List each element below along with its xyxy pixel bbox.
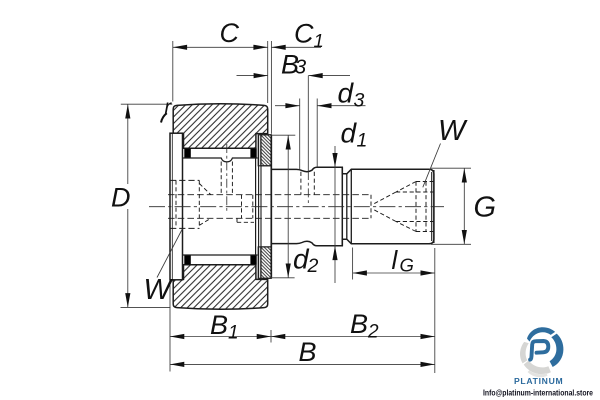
svg-text:W: W [144, 274, 174, 306]
dim lG: extension lines [353, 248, 435, 374]
dim C1: extension line [270, 41, 272, 134]
dim B1: line and arrows [170, 336, 271, 338]
dim d3: line and outside arrows [275, 105, 366, 107]
svg-text:d: d [338, 78, 355, 109]
dim d3: extension lines [300, 76, 318, 171]
svg-text:B: B [210, 310, 228, 340]
centerline: head radial hole [226, 144, 228, 212]
svg-text:1: 1 [228, 323, 239, 344]
stud flange top (hatched) [258, 135, 271, 166]
stud head raceway surface with lube notch [183, 158, 258, 162]
hidden: junction details [237, 195, 254, 223]
dim B1: extension lines [170, 284, 271, 372]
svg-text:2: 2 [307, 255, 319, 277]
svg-text:C: C [294, 19, 314, 49]
seal top-left [184, 149, 191, 158]
dim C: extension lines [173, 41, 268, 103]
logo [483, 327, 593, 397]
dim C: line and arrows [173, 46, 268, 48]
dim D: line and arrows [127, 104, 129, 307]
dim D: extension lines [121, 104, 173, 307]
collar right face vertical [341, 167, 343, 246]
seal bottom-right [250, 255, 256, 264]
svg-text:D: D [111, 183, 131, 213]
leader for W (left) [157, 229, 182, 278]
logo petal bottom (silver) [524, 361, 551, 375]
dim B: line and arrows [170, 363, 435, 365]
stud end chamfer inner edge [431, 172, 433, 241]
svg-text:B: B [350, 309, 368, 339]
svg-text:1: 1 [357, 130, 368, 152]
svg-text:G: G [474, 192, 497, 224]
svg-text:PLATINUM: PLATINUM [514, 376, 564, 386]
stud top profile: d2 section, groove, collar d1, relief, thread [271, 167, 434, 246]
logo petal left (silver) [520, 342, 529, 364]
stud head right face edge (crosses stud) [255, 158, 257, 255]
logo letter P [530, 341, 548, 360]
hidden: head left face behind washer [175, 180, 177, 228]
seal top-right [250, 149, 256, 158]
svg-text:3: 3 [354, 90, 365, 112]
flange left face and hatch boundary (cross stud) [259, 135, 261, 278]
stud end face [433, 170, 435, 243]
svg-text:1: 1 [314, 30, 324, 51]
dim G: line and arrows [463, 168, 465, 244]
leader for W (right) [423, 144, 441, 188]
logo petal top (blue) [527, 327, 555, 341]
dim d2: extension lines [270, 135, 296, 278]
dim G: extension lines [431, 168, 471, 244]
dim d1: line and outside arrows [334, 146, 336, 283]
logo shadow bottom [528, 370, 548, 377]
dim B2: line and arrows [271, 336, 435, 338]
centerline: main axis [149, 206, 444, 208]
outer ring (top half, hatched) [173, 104, 268, 149]
left end washer [170, 133, 183, 280]
flange right face (crosses stud) [270, 135, 272, 278]
svg-text:r: r [165, 97, 173, 119]
dim lG: line and arrows [353, 272, 435, 274]
stud flange bottom (hatched) [258, 247, 271, 278]
svg-text:W: W [438, 115, 468, 147]
svg-text:2: 2 [367, 322, 379, 343]
hidden: axial lubrication hole [168, 195, 371, 219]
dim C1: line and arrow [271, 46, 321, 48]
hidden: radial hole in groove [301, 172, 314, 195]
svg-text:3: 3 [295, 56, 307, 79]
leader for r [161, 113, 167, 122]
dim d2: line and arrows [287, 135, 289, 278]
hidden lines: head center recess (left) [168, 162, 434, 232]
centerline: groove radial hole (lower part) [307, 171, 309, 204]
relief groove verticals [347, 169, 352, 244]
dim B3: line and outside arrows [237, 75, 351, 77]
hidden: radial hole in head [221, 162, 232, 195]
svg-text:d: d [341, 118, 358, 149]
svg-text:C: C [220, 18, 240, 48]
outer ring (bottom half, hatched) [173, 265, 268, 310]
stud head bottom surface [183, 254, 258, 256]
svg-text:Info@platinum-international.st: Info@platinum-international.store [483, 388, 593, 398]
svg-text:G: G [400, 255, 414, 276]
svg-text:l: l [392, 245, 399, 275]
seal bottom-left [184, 255, 191, 264]
hidden: hex socket [416, 182, 434, 232]
svg-text:B: B [299, 337, 317, 367]
logo petal right (blue) [550, 334, 564, 367]
